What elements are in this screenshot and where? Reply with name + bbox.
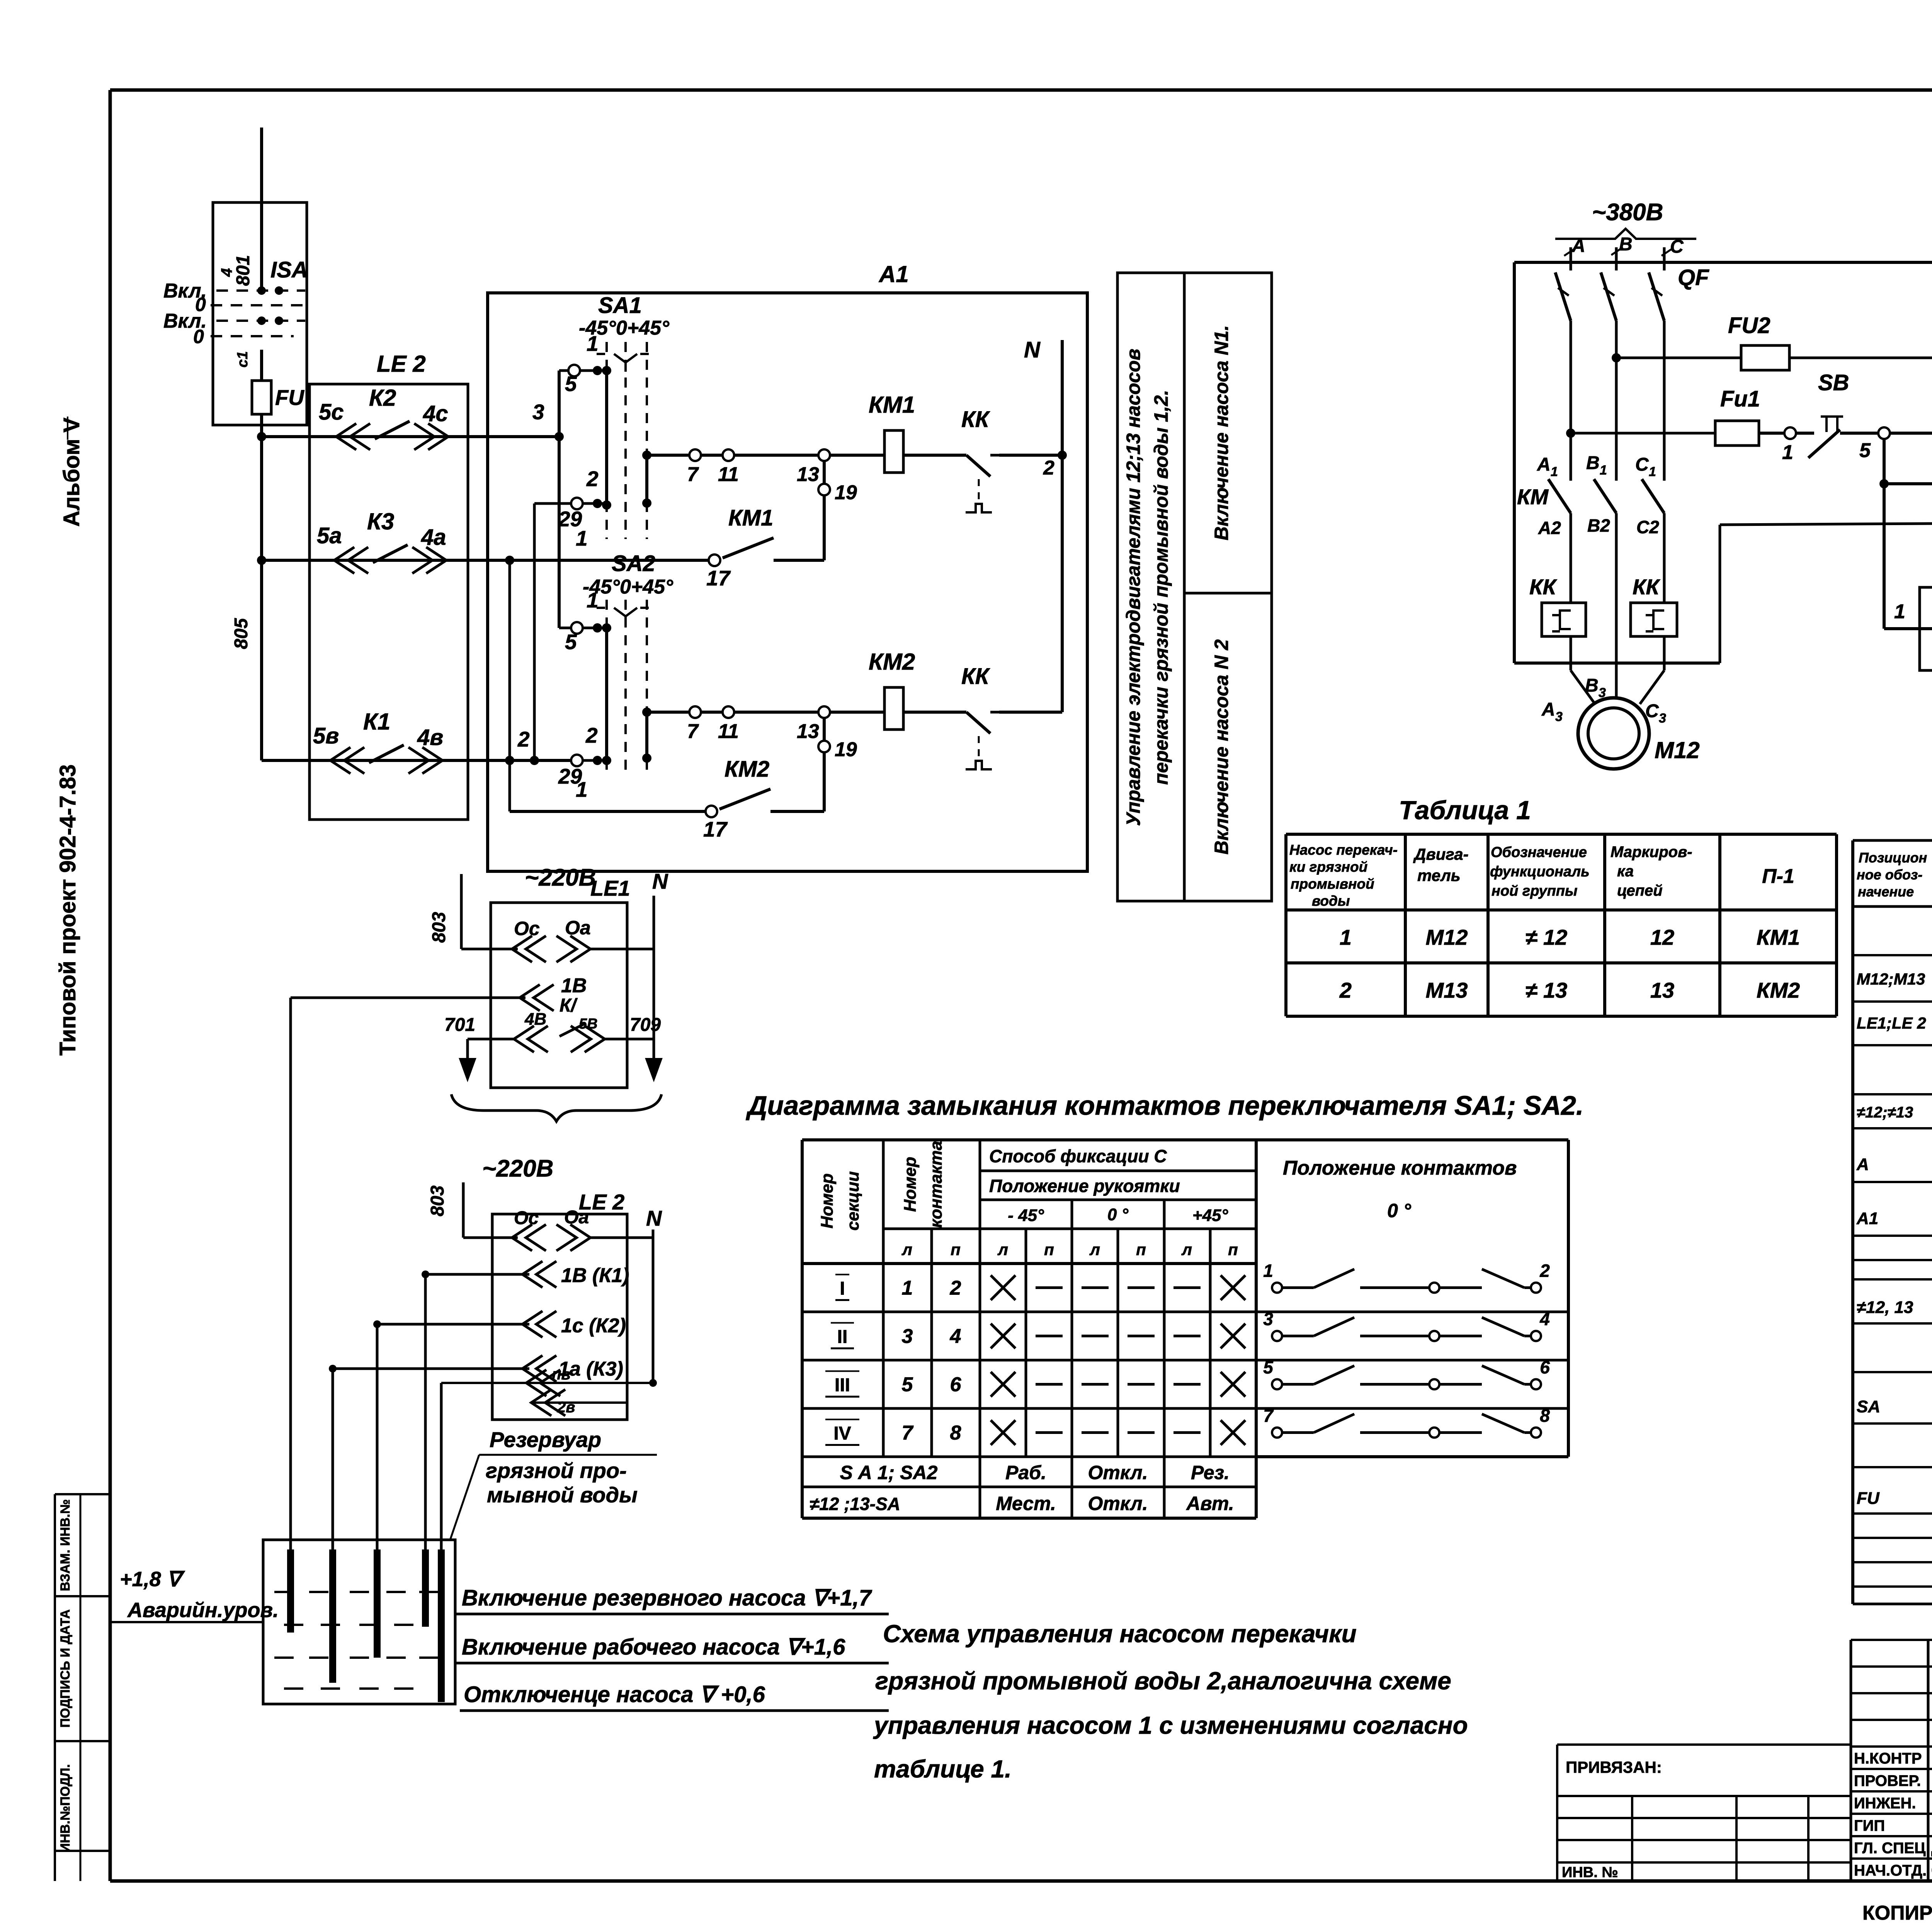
svg-text:С: С [1670, 236, 1684, 257]
svg-text:4c: 4c [423, 401, 448, 426]
svg-text:~220В: ~220В [525, 864, 596, 891]
svg-text:805: 805 [231, 618, 252, 649]
svg-text:л: л [1089, 1240, 1100, 1259]
svg-text:КОПИРОВАЛ: ЛОГИНОВА: КОПИРОВАЛ: ЛОГИНОВА [1862, 1902, 1932, 1924]
svg-text:1: 1 [1894, 600, 1905, 623]
svg-text:5В: 5В [579, 1016, 598, 1032]
svg-text:5: 5 [1859, 439, 1871, 462]
svg-text:А2: А2 [1538, 518, 1561, 538]
svg-text:3: 3 [1599, 685, 1606, 700]
svg-text:FU2: FU2 [1728, 313, 1770, 338]
svg-text:п: п [1228, 1240, 1238, 1259]
svg-text:701: 701 [444, 1015, 475, 1035]
svg-text:ИНВ. №: ИНВ. № [1562, 1864, 1618, 1881]
svg-text:1: 1 [1551, 464, 1558, 479]
svg-text:- 45°: - 45° [1008, 1206, 1044, 1225]
svg-text:17: 17 [706, 566, 731, 590]
svg-text:SA1: SA1 [598, 293, 642, 318]
svg-text:Ос: Ос [514, 1208, 539, 1228]
svg-text:М12: М12 [1426, 925, 1468, 949]
svg-text:М12: М12 [1655, 737, 1700, 763]
svg-text:8: 8 [950, 1422, 961, 1444]
svg-text:Положение рукоятки: Положение рукоятки [989, 1176, 1180, 1196]
svg-text:0: 0 [193, 326, 204, 347]
svg-text:11: 11 [718, 720, 739, 743]
svg-text:8: 8 [1540, 1406, 1550, 1426]
svg-text:803: 803 [427, 1185, 448, 1216]
svg-text:секции: секции [844, 1171, 862, 1231]
svg-text:5c: 5c [319, 400, 344, 425]
svg-text:Оа: Оа [565, 917, 591, 939]
svg-text:л: л [1181, 1240, 1192, 1259]
svg-text:1: 1 [1782, 441, 1793, 464]
svg-text:1: 1 [576, 777, 588, 801]
svg-text:3: 3 [902, 1325, 913, 1348]
svg-text:КК: КК [961, 664, 990, 689]
svg-text:0: 0 [195, 294, 206, 315]
svg-text:LE1: LE1 [590, 876, 630, 900]
svg-text:6: 6 [950, 1374, 962, 1396]
svg-text:С2: С2 [1636, 517, 1659, 537]
svg-text:С: С [1635, 454, 1649, 475]
svg-text:SА: SА [1857, 1397, 1880, 1416]
svg-text:SB: SB [1818, 370, 1849, 395]
svg-text:КМ1: КМ1 [869, 392, 915, 418]
svg-text:функциональ: функциональ [1490, 864, 1590, 880]
svg-text:Откл.: Откл. [1088, 1493, 1148, 1514]
svg-text:ГИП: ГИП [1854, 1817, 1885, 1834]
svg-text:N: N [646, 1206, 662, 1230]
svg-text:+45°: +45° [1192, 1206, 1228, 1225]
svg-text:грязной промывной воды 2,анало: грязной промывной воды 2,аналогична схем… [875, 1667, 1451, 1695]
svg-text:FU: FU [275, 385, 304, 410]
svg-text:Двига-: Двига- [1413, 845, 1469, 863]
svg-text:контакта: контакта [927, 1141, 946, 1228]
svg-text:≠12 ;13-SА: ≠12 ;13-SА [810, 1494, 900, 1514]
svg-text:мывной воды: мывной воды [487, 1483, 638, 1507]
svg-text:~220В: ~220В [482, 1155, 553, 1182]
svg-text:6: 6 [1540, 1357, 1550, 1378]
svg-text:К/: К/ [560, 995, 578, 1016]
svg-text:≠ 12: ≠ 12 [1526, 925, 1568, 949]
svg-text:2: 2 [585, 723, 598, 747]
svg-text:А1: А1 [878, 261, 909, 287]
svg-text:п: п [1136, 1240, 1146, 1259]
svg-text:А: А [1541, 699, 1555, 720]
svg-text:3: 3 [1263, 1309, 1273, 1329]
svg-text:19: 19 [835, 481, 857, 504]
svg-text:П-1: П-1 [1762, 865, 1794, 888]
svg-text:Диаграмма замыкания контактов: Диаграмма замыкания контактов переключат… [746, 1090, 1583, 1121]
svg-text:К3: К3 [367, 509, 394, 534]
svg-text:В: В [1585, 675, 1599, 696]
svg-text:Мест.: Мест. [996, 1493, 1056, 1514]
svg-text:КК: КК [1633, 575, 1660, 599]
svg-text:4В: 4В [524, 1010, 546, 1029]
svg-text:5: 5 [565, 372, 577, 396]
svg-text:III: III [835, 1375, 850, 1396]
svg-text:Fu1: Fu1 [1720, 386, 1760, 412]
svg-text:3: 3 [532, 400, 544, 424]
svg-text:7: 7 [687, 720, 699, 743]
svg-text:Насос перекач-: Насос перекач- [1289, 842, 1398, 858]
svg-text:Рез.: Рез. [1191, 1462, 1230, 1483]
svg-text:801: 801 [233, 255, 253, 286]
svg-text:ПОДПИСЬ И ДАТА: ПОДПИСЬ И ДАТА [58, 1609, 73, 1728]
svg-text:4: 4 [1539, 1309, 1550, 1329]
svg-text:1: 1 [1649, 464, 1656, 479]
svg-text:перекачки грязной промывной во: перекачки грязной промывной воды 1,2. [1150, 390, 1172, 785]
svg-text:13: 13 [797, 720, 819, 743]
svg-text:пв: пв [552, 1366, 571, 1383]
svg-text:КМ1: КМ1 [728, 505, 773, 531]
svg-text:Таблица 1: Таблица 1 [1399, 796, 1531, 825]
svg-text:начение: начение [1858, 884, 1914, 900]
svg-text:Оа: Оа [564, 1207, 589, 1228]
svg-text:С: С [1645, 701, 1659, 721]
svg-text:НАЧ.ОТД.: НАЧ.ОТД. [1854, 1862, 1927, 1879]
svg-text:Положение контактов: Положение контактов [1283, 1157, 1517, 1179]
svg-text:N: N [652, 869, 668, 893]
svg-text:КМ2: КМ2 [724, 757, 769, 782]
svg-text:2: 2 [586, 467, 599, 491]
svg-text:ка: ка [1617, 863, 1634, 880]
svg-text:М12;М13: М12;М13 [1857, 970, 1925, 988]
svg-text:А: А [1571, 236, 1585, 256]
svg-text:5: 5 [902, 1374, 913, 1396]
svg-text:Схема управления насосом перек: Схема управления насосом перекачки [883, 1620, 1357, 1648]
svg-text:грязной про-: грязной про- [486, 1458, 627, 1483]
svg-text:4: 4 [218, 268, 235, 277]
svg-text:7: 7 [1263, 1406, 1274, 1426]
svg-text:Обозначение: Обозначение [1491, 844, 1587, 861]
svg-text:КМ2: КМ2 [869, 649, 915, 675]
svg-text:п: п [951, 1240, 961, 1259]
svg-text:1: 1 [1600, 463, 1607, 478]
svg-text:12: 12 [1650, 925, 1674, 949]
svg-text:II: II [837, 1327, 848, 1347]
svg-text:0 °: 0 ° [1107, 1205, 1129, 1224]
svg-text:SA2: SA2 [612, 551, 655, 576]
svg-text:л: л [901, 1240, 912, 1259]
svg-text:17: 17 [703, 817, 728, 841]
svg-text:1В (К1): 1В (К1) [561, 1264, 629, 1287]
svg-text:ИНВ.№ПОДЛ.: ИНВ.№ПОДЛ. [58, 1764, 73, 1853]
svg-text:1: 1 [1340, 925, 1352, 949]
svg-text:управления насосом 1 с изменен: управления насосом 1 с изменениями согла… [873, 1711, 1468, 1739]
svg-text:2: 2 [1339, 978, 1352, 1002]
svg-text:п: п [1044, 1240, 1054, 1259]
svg-text:ки грязной: ки грязной [1289, 859, 1367, 875]
svg-text:≠12, 13: ≠12, 13 [1857, 1298, 1913, 1317]
svg-text:13: 13 [1650, 978, 1674, 1002]
svg-text:I: I [840, 1279, 845, 1299]
svg-text:В: В [1619, 234, 1633, 255]
svg-text:19: 19 [835, 738, 857, 761]
svg-text:КМ: КМ [1517, 485, 1549, 509]
svg-text:LE 2: LE 2 [377, 351, 426, 377]
svg-text:Управление электродвигателями: Управление электродвигателями 12;13 насо… [1122, 349, 1144, 826]
svg-text:13: 13 [797, 463, 819, 486]
svg-text:Раб.: Раб. [1005, 1462, 1046, 1483]
svg-text:А1: А1 [1856, 1209, 1878, 1228]
svg-text:ПРИВЯЗАН:: ПРИВЯЗАН: [1566, 1758, 1662, 1776]
svg-text:л: л [997, 1240, 1008, 1259]
svg-text:5: 5 [1263, 1357, 1274, 1378]
svg-text:КМ1: КМ1 [1757, 925, 1800, 949]
svg-text:ПРОВЕР.: ПРОВЕР. [1854, 1772, 1921, 1789]
svg-text:803: 803 [429, 912, 449, 943]
svg-text:2в: 2в [557, 1399, 575, 1416]
svg-text:промывной: промывной [1291, 876, 1374, 892]
svg-text:1: 1 [587, 588, 599, 612]
svg-text:2: 2 [1043, 457, 1054, 479]
svg-text:КК: КК [1529, 575, 1557, 599]
svg-text:К2: К2 [369, 385, 396, 411]
svg-text:ной группы: ной группы [1492, 883, 1577, 899]
svg-text:+1,8 ∇: +1,8 ∇ [120, 1568, 185, 1591]
svg-text:4в: 4в [417, 725, 443, 750]
svg-text:Типовой проект 902-4-7.83: Типовой проект 902-4-7.83 [55, 764, 80, 1056]
svg-text:ISA: ISA [270, 257, 308, 282]
svg-text:5в: 5в [313, 723, 339, 748]
svg-text:Резервуар: Резервуар [490, 1427, 601, 1452]
svg-text:N: N [1024, 337, 1041, 362]
svg-text:≠12;≠13: ≠12;≠13 [1857, 1104, 1913, 1121]
svg-text:ИНЖЕН.: ИНЖЕН. [1854, 1795, 1916, 1812]
svg-text:ГЛ. СПЕЦ: ГЛ. СПЕЦ [1854, 1840, 1926, 1857]
svg-text:~380В: ~380В [1592, 199, 1663, 226]
svg-text:1: 1 [576, 526, 588, 550]
svg-text:FU: FU [1857, 1489, 1880, 1508]
svg-text:S А 1; SА2: S А 1; SА2 [840, 1462, 938, 1483]
svg-text:КМ2: КМ2 [1757, 978, 1800, 1002]
svg-text:ВЗАМ. ИНВ.№: ВЗАМ. ИНВ.№ [58, 1499, 73, 1591]
svg-text:4a: 4a [421, 525, 446, 550]
svg-text:Ос: Ос [514, 918, 540, 939]
svg-text:1с (К2): 1с (К2) [561, 1315, 626, 1337]
svg-text:ное обоз-: ное обоз- [1857, 867, 1922, 883]
svg-text:3: 3 [1555, 709, 1563, 724]
svg-text:2: 2 [950, 1277, 961, 1299]
svg-text:с1: с1 [235, 351, 251, 367]
svg-text:5a: 5a [317, 523, 342, 548]
svg-text:11: 11 [718, 463, 739, 486]
svg-text:М13: М13 [1426, 978, 1468, 1002]
svg-text:воды: воды [1312, 893, 1350, 909]
svg-text:тель: тель [1417, 866, 1461, 884]
svg-text:Аварийн.уров.: Аварийн.уров. [127, 1599, 279, 1622]
svg-text:Авт.: Авт. [1185, 1493, 1234, 1514]
svg-text:2: 2 [1539, 1261, 1550, 1281]
svg-text:А: А [1537, 454, 1551, 475]
svg-text:В2: В2 [1587, 515, 1610, 536]
svg-text:Отключенце насоса ∇ +0,6: Отключенце насоса ∇ +0,6 [464, 1682, 765, 1707]
svg-text:таблице 1.: таблице 1. [874, 1755, 1012, 1783]
svg-text:А: А [1856, 1155, 1869, 1174]
svg-text:Включение насоса N1.: Включение насоса N1. [1211, 325, 1232, 541]
svg-text:IV: IV [833, 1423, 851, 1444]
svg-text:≠ 13: ≠ 13 [1526, 978, 1568, 1002]
svg-text:Способ фиксации С: Способ фиксации С [989, 1146, 1167, 1166]
svg-text:цепей: цепей [1617, 882, 1663, 899]
svg-text:Включение насоса N 2: Включение насоса N 2 [1211, 639, 1232, 854]
svg-text:1: 1 [902, 1277, 913, 1299]
svg-text:Н.КОНТР: Н.КОНТР [1854, 1750, 1922, 1767]
svg-text:0 °: 0 ° [1387, 1200, 1412, 1221]
svg-text:LE1;LE 2: LE1;LE 2 [1857, 1014, 1926, 1032]
svg-text:3: 3 [1659, 711, 1666, 726]
svg-text:КК: КК [961, 407, 990, 432]
svg-text:Откл.: Откл. [1088, 1462, 1148, 1483]
svg-text:7: 7 [902, 1422, 914, 1444]
svg-text:Маркиров-: Маркиров- [1611, 844, 1692, 861]
svg-text:Номер: Номер [901, 1157, 920, 1212]
svg-text:1: 1 [1263, 1261, 1273, 1281]
svg-text:709: 709 [630, 1015, 661, 1035]
svg-text:2: 2 [517, 727, 530, 751]
svg-text:4: 4 [950, 1325, 961, 1348]
svg-text:1В: 1В [561, 975, 587, 997]
svg-text:Номер: Номер [818, 1173, 837, 1229]
svg-text:К1: К1 [363, 709, 390, 735]
svg-text:В: В [1586, 453, 1600, 473]
svg-text:QF: QF [1678, 265, 1709, 290]
svg-text:Включение резервного насоса ∇+: Включение резервного насоса ∇+1,7 [462, 1585, 872, 1611]
svg-text:1: 1 [587, 332, 599, 355]
svg-text:Альбом V: Альбом V [59, 417, 84, 527]
svg-text:5: 5 [565, 630, 577, 654]
svg-text:Позицион: Позицион [1859, 850, 1927, 866]
svg-text:Включение рабочего насоса ∇+1,: Включение рабочего насоса ∇+1,6 [462, 1634, 845, 1660]
svg-text:7: 7 [687, 463, 699, 486]
